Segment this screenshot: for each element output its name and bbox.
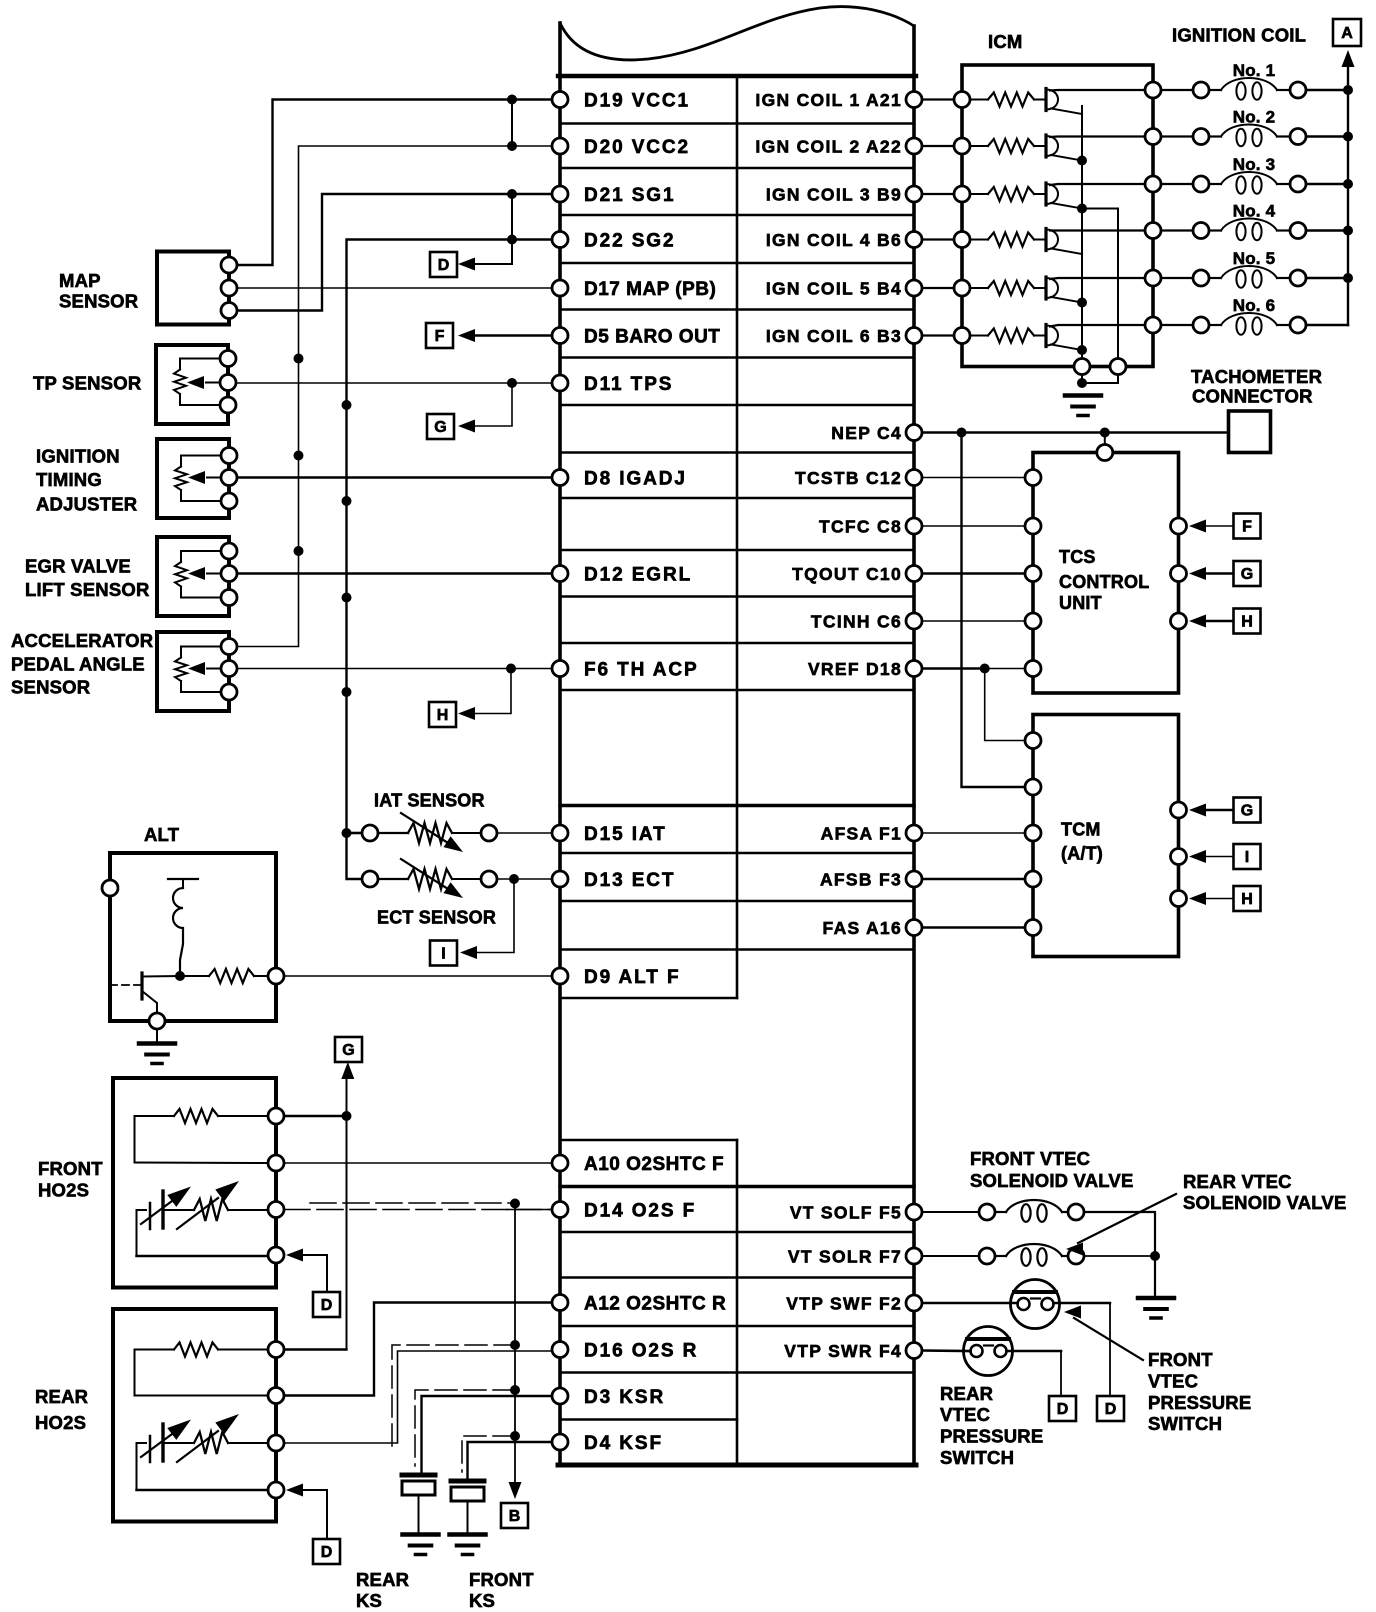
ICM base resistor 3 (970, 193, 988, 195)
svg-text:PRESSURE: PRESSURE (1148, 1392, 1251, 1413)
ECM left port D9 (552, 968, 568, 984)
wire F6 TH ACP signal (237, 668, 552, 670)
junction front O2S shield to bus (510, 1199, 520, 1209)
svg-text:CONTROL: CONTROL (1059, 572, 1149, 592)
connector I at TCM (1234, 844, 1261, 869)
svg-text:D20 VCC2: D20 VCC2 (584, 137, 690, 158)
svg-text:No. 2: No. 2 (1233, 108, 1276, 127)
TCS control unit box (1033, 453, 1179, 694)
svg-text:D8 IGADJ: D8 IGADJ (584, 469, 687, 490)
rear VTEC pressure switch (964, 1327, 1013, 1376)
wire VREF to TCM (985, 669, 1025, 741)
junction SG2 to accelerator pedal sensor (342, 687, 352, 697)
ICM output port 6 (1145, 317, 1161, 333)
ICM emitter bus (1081, 106, 1083, 359)
svg-text:AFSB F3: AFSB F3 (820, 870, 902, 890)
wire ICM grounds to ground (1081, 375, 1083, 384)
wire ECM IGN COIL 1 to ICM (922, 98, 954, 100)
ICM output transistor Q6 (1046, 325, 1145, 351)
svg-text:TIMING: TIMING (36, 469, 102, 490)
junction rear O2S shield to bus (510, 1340, 520, 1350)
svg-text:SENSOR: SENSOR (11, 677, 90, 698)
ECM right port IGN3 (906, 186, 922, 202)
TCS right port F (1171, 518, 1187, 534)
ICM base resistor 5 (970, 287, 988, 289)
junction front KS shield to bus (510, 1431, 520, 1441)
junction heater G line (342, 1111, 352, 1121)
junction SG2 to IAT sensor (342, 828, 352, 838)
wire ECT to D13 (497, 878, 552, 880)
shield bus to connector B (514, 1204, 516, 1483)
svg-text:REAR: REAR (35, 1386, 88, 1407)
svg-text:IGNITION COIL: IGNITION COIL (1172, 25, 1306, 46)
svg-text:UNIT: UNIT (1059, 593, 1102, 613)
ECM right port IGN2 (906, 138, 922, 154)
arrow into connector G (458, 420, 475, 433)
svg-text:EGR VALVE: EGR VALVE (25, 556, 131, 577)
arrow to front VTEC pressure switch (1074, 1318, 1143, 1360)
rear VTEC solenoid valve coil (979, 1244, 1084, 1266)
connector I (ECT) (430, 941, 457, 966)
wire VTP SWF F2 to front pressure switch (922, 1302, 1018, 1305)
svg-text:F: F (1242, 519, 1252, 536)
ECM right port AFSB (906, 871, 922, 887)
wire ECM IGN COIL 5 to ICM (922, 287, 954, 289)
ground below rear KS (403, 1532, 439, 1537)
svg-text:D16 O2S R: D16 O2S R (584, 1341, 698, 1362)
ECM right port VTSOLR (906, 1248, 922, 1264)
TCS port TQOUT C10 (1025, 566, 1041, 582)
wire D22 SG2 bus (347, 240, 553, 880)
tachometer connector (1229, 411, 1271, 453)
svg-text:IAT SENSOR: IAT SENSOR (374, 791, 485, 811)
svg-text:KS: KS (469, 1590, 495, 1611)
wire NEP C4 to tachometer connector (922, 431, 1229, 433)
wire TPS branch to connector G (470, 383, 512, 426)
ICM output transistor Q1 (1046, 89, 1145, 115)
ICM output port 2 (1145, 129, 1161, 145)
wire front O2S ground to connector D (303, 1255, 327, 1292)
svg-text:REAR: REAR (940, 1383, 993, 1404)
TCS port TCFC C8 (1025, 518, 1041, 534)
ALT output port (268, 968, 284, 984)
ground below ALT (156, 1029, 158, 1043)
wire ECM IGN COIL 3 to ICM (922, 193, 954, 195)
svg-text:TCSTB C12: TCSTB C12 (795, 468, 902, 488)
svg-text:D: D (1057, 1401, 1069, 1418)
ICM output transistor Q5 (1046, 277, 1145, 303)
svg-text:No. 6: No. 6 (1233, 296, 1276, 315)
wire D4 KSF to front knock sensor (468, 1442, 553, 1478)
ICM base resistor 4 (970, 239, 988, 241)
ECM left port D15 (552, 825, 568, 841)
ECM right port IGN6 (906, 328, 922, 344)
ECM left port D20 (552, 138, 568, 154)
junction ICM ground (1077, 378, 1087, 388)
svg-text:A: A (1341, 25, 1353, 42)
wire NEP branch to TCS top (1104, 433, 1106, 445)
ICM base resistor 6 (970, 335, 988, 337)
junction SG2 to EGR lift sensor (342, 593, 352, 603)
wire D12 EGRL signal (237, 572, 552, 574)
ALT field coil (168, 879, 198, 976)
svg-text:REAR: REAR (356, 1569, 409, 1590)
alternator ALT block (102, 853, 276, 1021)
ICM output port 5 (1145, 270, 1161, 286)
svg-text:IGN COIL 5 B4: IGN COIL 5 B4 (766, 279, 902, 299)
TCM box (1033, 715, 1179, 957)
TCS port VREF D18 (1025, 661, 1041, 677)
MAP sensor (157, 252, 237, 325)
ICM input port 5 (954, 280, 970, 296)
ECM left port D8 (552, 470, 568, 486)
svg-text:NEP C4: NEP C4 (831, 423, 902, 443)
ICM ignitor control module box (962, 65, 1153, 367)
svg-text:B: B (509, 1508, 521, 1525)
junction TPS to connector G (507, 378, 517, 388)
connector G at TCM (1234, 798, 1261, 823)
front heated oxygen sensor FRONT HO2S (113, 1078, 284, 1288)
svg-text:IGN COIL 1 A21: IGN COIL 1 A21 (755, 90, 902, 110)
svg-text:IGN COIL 3 B9: IGN COIL 3 B9 (766, 185, 902, 205)
wire D19 VCC1 to MAP sensor (237, 100, 552, 266)
svg-text:SOLENOID VALVE: SOLENOID VALVE (1183, 1192, 1347, 1213)
connector F at TCS (1234, 514, 1261, 539)
svg-text:SENSOR: SENSOR (59, 291, 138, 312)
wire VCC1-VCC2 jumper (511, 100, 513, 147)
wire TCINH C6 to TCS (922, 620, 1025, 622)
ECM left port D12 (552, 566, 568, 582)
arrow into connector G above (341, 1062, 354, 1079)
ICM input port 3 (954, 186, 970, 202)
wire ALT F to D9 (284, 975, 552, 977)
wire D3 KSR to rear knock sensor (422, 1396, 553, 1472)
svg-text:No. 5: No. 5 (1233, 249, 1276, 268)
ignition coil No. 3 (1161, 172, 1348, 194)
junction coil bus 5 (1343, 273, 1353, 283)
ECM right port NEP (906, 425, 922, 441)
svg-text:ICM: ICM (988, 31, 1023, 52)
EGR valve lift sensor (potentiometer) (157, 537, 237, 616)
ICM output transistor Q4 (1046, 229, 1145, 255)
front VTEC solenoid valve coil (979, 1200, 1084, 1222)
arrow into TCS from connector G (1189, 567, 1206, 580)
svg-text:AFSA F1: AFSA F1 (821, 824, 902, 844)
svg-text:TQOUT C10: TQOUT C10 (792, 564, 902, 584)
svg-text:No. 4: No. 4 (1233, 202, 1276, 221)
svg-text:No. 1: No. 1 (1233, 61, 1276, 80)
junction ALT coil to field line (175, 971, 185, 981)
junction VCC2 to EGR lift sensor (294, 546, 304, 556)
junction coil bus 1 (1343, 85, 1353, 95)
svg-text:SWITCH: SWITCH (940, 1447, 1014, 1468)
rear heated oxygen sensor REAR HO2S (113, 1309, 284, 1522)
junction VCC1/VCC2 jumper top (507, 95, 517, 105)
ICM output port 3 (1145, 176, 1161, 192)
wire front O2S heater control to A10 (284, 1162, 552, 1164)
wire ECM IGN COIL 2 to ICM (922, 145, 954, 147)
TCM port NEP (1025, 779, 1041, 795)
arrow into TCM from connector H (1189, 892, 1206, 905)
junction SG1/SG2 jumper top (507, 189, 517, 199)
connector A (ignition supply) (1333, 19, 1361, 46)
shield of front knock sensor wire (462, 1436, 515, 1472)
junction VREF to TCM (980, 664, 990, 674)
ECM left port D17 (552, 280, 568, 296)
wire rear O2S signal to D16 (shielded) (284, 1351, 552, 1443)
wire NEP to TCM (962, 433, 1026, 788)
svg-text:D: D (1105, 1401, 1117, 1418)
wire rear O2S ground to connector D (303, 1490, 327, 1539)
junction emitter 6 (1077, 345, 1087, 355)
wire VREF D18 heavy segment (922, 667, 985, 670)
svg-text:VT SOLR F7: VT SOLR F7 (788, 1247, 902, 1267)
svg-text:ECT SENSOR: ECT SENSOR (377, 908, 496, 928)
wire connector G to TCS (1206, 572, 1234, 574)
wire SG1-SG2 jumper (511, 194, 513, 240)
wire IAT to D15 (497, 832, 552, 834)
junction NEP to TCM (957, 428, 967, 438)
accelerator pedal angle sensor (potentiometer) (157, 632, 237, 711)
arrow into TCS from connector F (1189, 520, 1206, 533)
connector F (BARO) (426, 323, 453, 348)
svg-text:VTEC: VTEC (1148, 1371, 1198, 1392)
ICM input port 1 (954, 92, 970, 108)
wire connector H to TCS (1206, 620, 1234, 622)
svg-text:TCM: TCM (1061, 820, 1101, 840)
svg-text:I: I (1245, 849, 1249, 866)
wire VT SOLR F7 to rear solenoid (922, 1255, 979, 1257)
connector H at TCM (1234, 886, 1261, 911)
connector G (O2S heater power) (335, 1037, 362, 1062)
rear knock sensor REAR KS (402, 1473, 435, 1478)
ECM right port VTSOLF (906, 1204, 922, 1220)
svg-text:G: G (1241, 566, 1253, 583)
svg-text:D: D (321, 1297, 333, 1314)
wire D11 TPS signal (236, 382, 553, 384)
svg-text:D22 SG2: D22 SG2 (584, 231, 675, 252)
TCS right port G (1171, 566, 1187, 582)
shield of front O2S signal (310, 1202, 515, 1204)
svg-text:ALT: ALT (144, 824, 180, 845)
junction emitter 3 (1077, 204, 1087, 214)
svg-text:F6 TH ACP: F6 TH ACP (584, 660, 699, 681)
svg-text:H: H (1241, 614, 1253, 631)
junction SG2 to ignition timing adjuster (342, 496, 352, 506)
junction emitter 2 (1077, 156, 1087, 166)
wire ECT branch to connector I (472, 879, 514, 953)
svg-text:FRONT: FRONT (1148, 1349, 1213, 1370)
svg-text:CONNECTOR: CONNECTOR (1192, 386, 1313, 407)
arrow at front O2S ground (286, 1249, 303, 1262)
svg-text:D17 MAP (PB): D17 MAP (PB) (584, 279, 716, 300)
ICM input port 2 (954, 138, 970, 154)
junction VCC2 to ignition timing adjuster (294, 451, 304, 461)
TCM right port H (1171, 891, 1187, 907)
ECM left port D13 (552, 871, 568, 887)
junction coil bus 3 (1343, 179, 1353, 189)
arrow into connector D (458, 258, 475, 271)
TCS port TCINH C6 (1025, 613, 1041, 629)
svg-text:D11 TPS: D11 TPS (584, 374, 673, 395)
svg-text:FRONT VTEC: FRONT VTEC (970, 1148, 1090, 1169)
ICM output port 4 (1145, 223, 1161, 239)
wire rear O2S heater control to A12 (284, 1303, 552, 1396)
svg-text:I: I (441, 946, 445, 963)
svg-text:MAP: MAP (59, 270, 101, 291)
wire TCSTB C12 to TCS (922, 477, 1025, 479)
arrow into connector F (458, 329, 475, 342)
ECM right port IGN5 (906, 280, 922, 296)
wire connector G to TCM (1206, 809, 1234, 811)
wire rear O2S heater to G line (284, 1348, 347, 1350)
svg-text:VTEC: VTEC (940, 1404, 990, 1425)
svg-text:D15 IAT: D15 IAT (584, 824, 667, 845)
arrow into TCM from connector I (1189, 850, 1206, 863)
ignition coil No. 2 (1161, 125, 1348, 147)
front VTEC pressure switch (1011, 1280, 1060, 1329)
ICM output transistor Q2 (1046, 135, 1145, 161)
junction VCC1/VCC2 jumper bottom (507, 141, 517, 151)
junction TH ACP to connector H (506, 664, 516, 674)
ICM ground port 1 (1074, 359, 1090, 375)
junction coil bus 2 (1343, 132, 1353, 142)
arrow into connector A (1342, 50, 1355, 67)
svg-text:IGN COIL 2 A22: IGN COIL 2 A22 (755, 137, 902, 157)
ICM emitter branch right (1082, 209, 1118, 359)
svg-text:HO2S: HO2S (35, 1412, 86, 1433)
ECM right port TCFC (906, 518, 922, 534)
wire SG2 jumper to connector D (470, 240, 512, 265)
arrow into connector B (509, 1482, 522, 1499)
ECM right port TQOUT (906, 566, 922, 582)
wire ECM IGN COIL 4 to ICM (922, 238, 954, 240)
svg-text:VREF D18: VREF D18 (808, 659, 902, 679)
svg-text:D: D (438, 257, 450, 274)
svg-text:D21 SG1: D21 SG1 (584, 185, 675, 206)
svg-text:A10 O2SHTC F: A10 O2SHTC F (584, 1154, 724, 1175)
ALT regulator transistor (110, 973, 180, 1013)
junction SG1/SG2 jumper bottom (507, 235, 517, 245)
svg-text:PRESSURE: PRESSURE (940, 1426, 1043, 1447)
wire VTP SWR F4 to rear pressure switch (922, 1349, 971, 1352)
svg-text:F: F (435, 328, 445, 345)
wire VT SOLF F5 to front solenoid (922, 1211, 979, 1213)
TCM right port G (1171, 802, 1187, 818)
TCM port FAS A16 (1025, 920, 1041, 936)
ignition coil No. 4 (1161, 219, 1348, 241)
junction coil bus 4 (1343, 226, 1353, 236)
ICM output port 1 (1145, 82, 1161, 98)
shield of rear O2S signal (392, 1345, 515, 1446)
ignition coil No. 6 (1161, 313, 1348, 335)
connector D (rear VTEC switch) (1049, 1396, 1076, 1421)
junction emitter 5 (1077, 298, 1087, 308)
ECM right port TCINH (906, 613, 922, 629)
junction VCC2 to TP sensor (294, 354, 304, 364)
svg-text:G: G (434, 419, 446, 436)
connector H (TH ACP) (429, 702, 456, 727)
ECM right port FAS (906, 920, 922, 936)
TCS port TCSTB C12 (1025, 470, 1041, 486)
svg-text:HO2S: HO2S (38, 1180, 89, 1201)
svg-text:LIFT SENSOR: LIFT SENSOR (25, 579, 150, 600)
connector D (front VTEC switch) (1097, 1396, 1124, 1421)
ECM left port A10 (552, 1155, 568, 1171)
ECM left port F6 (552, 661, 568, 677)
TCS top port (1097, 445, 1113, 461)
ECT sensor (thermistor) (362, 859, 497, 898)
svg-text:D: D (321, 1544, 333, 1561)
wire front solenoid to ground bus (1084, 1212, 1155, 1296)
junction solenoid ground bus (1150, 1251, 1160, 1261)
connector G (TPS) (427, 414, 454, 439)
ECM left port D4 (552, 1434, 568, 1450)
wire VREF D18 to TCS (922, 668, 1025, 670)
svg-text:SOLENOID VALVE: SOLENOID VALVE (970, 1170, 1134, 1191)
svg-text:D3 KSR: D3 KSR (584, 1387, 665, 1408)
wire front pressure switch to connector D (1054, 1302, 1111, 1304)
wire connector I to TCM (1206, 856, 1234, 858)
ICM input port 6 (954, 328, 970, 344)
TCM right port I (1171, 849, 1187, 865)
ECM left port D11 (552, 375, 568, 391)
svg-text:D5 BARO OUT: D5 BARO OUT (584, 327, 720, 348)
wire D21 SG1 to MAP sensor (237, 194, 552, 311)
ECM right port TCSTB (906, 470, 922, 486)
ICM output transistor Q3 (1046, 183, 1145, 209)
svg-text:VTP SWR F4: VTP SWR F4 (784, 1341, 902, 1361)
ECM left port D22 (552, 232, 568, 248)
svg-text:D4 KSF: D4 KSF (584, 1433, 663, 1454)
svg-text:FRONT: FRONT (38, 1158, 103, 1179)
svg-text:FRONT: FRONT (469, 1569, 534, 1590)
ECM engine control module block (558, 7, 916, 1465)
svg-text:REAR VTEC: REAR VTEC (1183, 1171, 1292, 1192)
svg-text:KS: KS (356, 1590, 382, 1611)
wire connector F to TCS (1206, 525, 1234, 527)
front knock sensor FRONT KS (451, 1479, 484, 1484)
svg-text:SWITCH: SWITCH (1148, 1413, 1222, 1434)
arrow into connector I (460, 946, 477, 959)
svg-text:D13 ECT: D13 ECT (584, 870, 675, 891)
junction rear KS shield to bus (510, 1385, 520, 1395)
IAT sensor (thermistor) (352, 813, 498, 852)
ECM right port AFSA (906, 825, 922, 841)
svg-text:IGN COIL 6 B3: IGN COIL 6 B3 (766, 326, 902, 346)
svg-text:A12 O2SHTC R: A12 O2SHTC R (584, 1294, 726, 1315)
wire connector H to TCM (1206, 898, 1234, 900)
shield of rear knock sensor wire (415, 1390, 515, 1466)
svg-text:FAS A16: FAS A16 (823, 918, 902, 938)
ICM input port 4 (954, 232, 970, 248)
wire rear pressure switch to connector D (1007, 1350, 1062, 1353)
junction ECT to connector I (509, 874, 519, 884)
svg-text:ADJUSTER: ADJUSTER (36, 494, 137, 515)
connector D (sensor ground) (430, 252, 457, 277)
svg-text:H: H (1241, 891, 1253, 908)
ICM base resistor 1 (970, 99, 988, 101)
wire D20 VCC2 bus (237, 146, 552, 647)
TCS right port H (1171, 613, 1187, 629)
wire AFSA F1 to TCM (922, 832, 1025, 834)
ECM right port VTPSWF (906, 1295, 922, 1311)
connector D (rear O2S ground) (313, 1539, 340, 1564)
TCM port AFSA F1 (1025, 825, 1041, 841)
TP sensor (potentiometer) (156, 345, 236, 424)
arrow into TCM from connector G (1189, 804, 1206, 817)
ground below VTEC solenoids (1138, 1296, 1174, 1301)
